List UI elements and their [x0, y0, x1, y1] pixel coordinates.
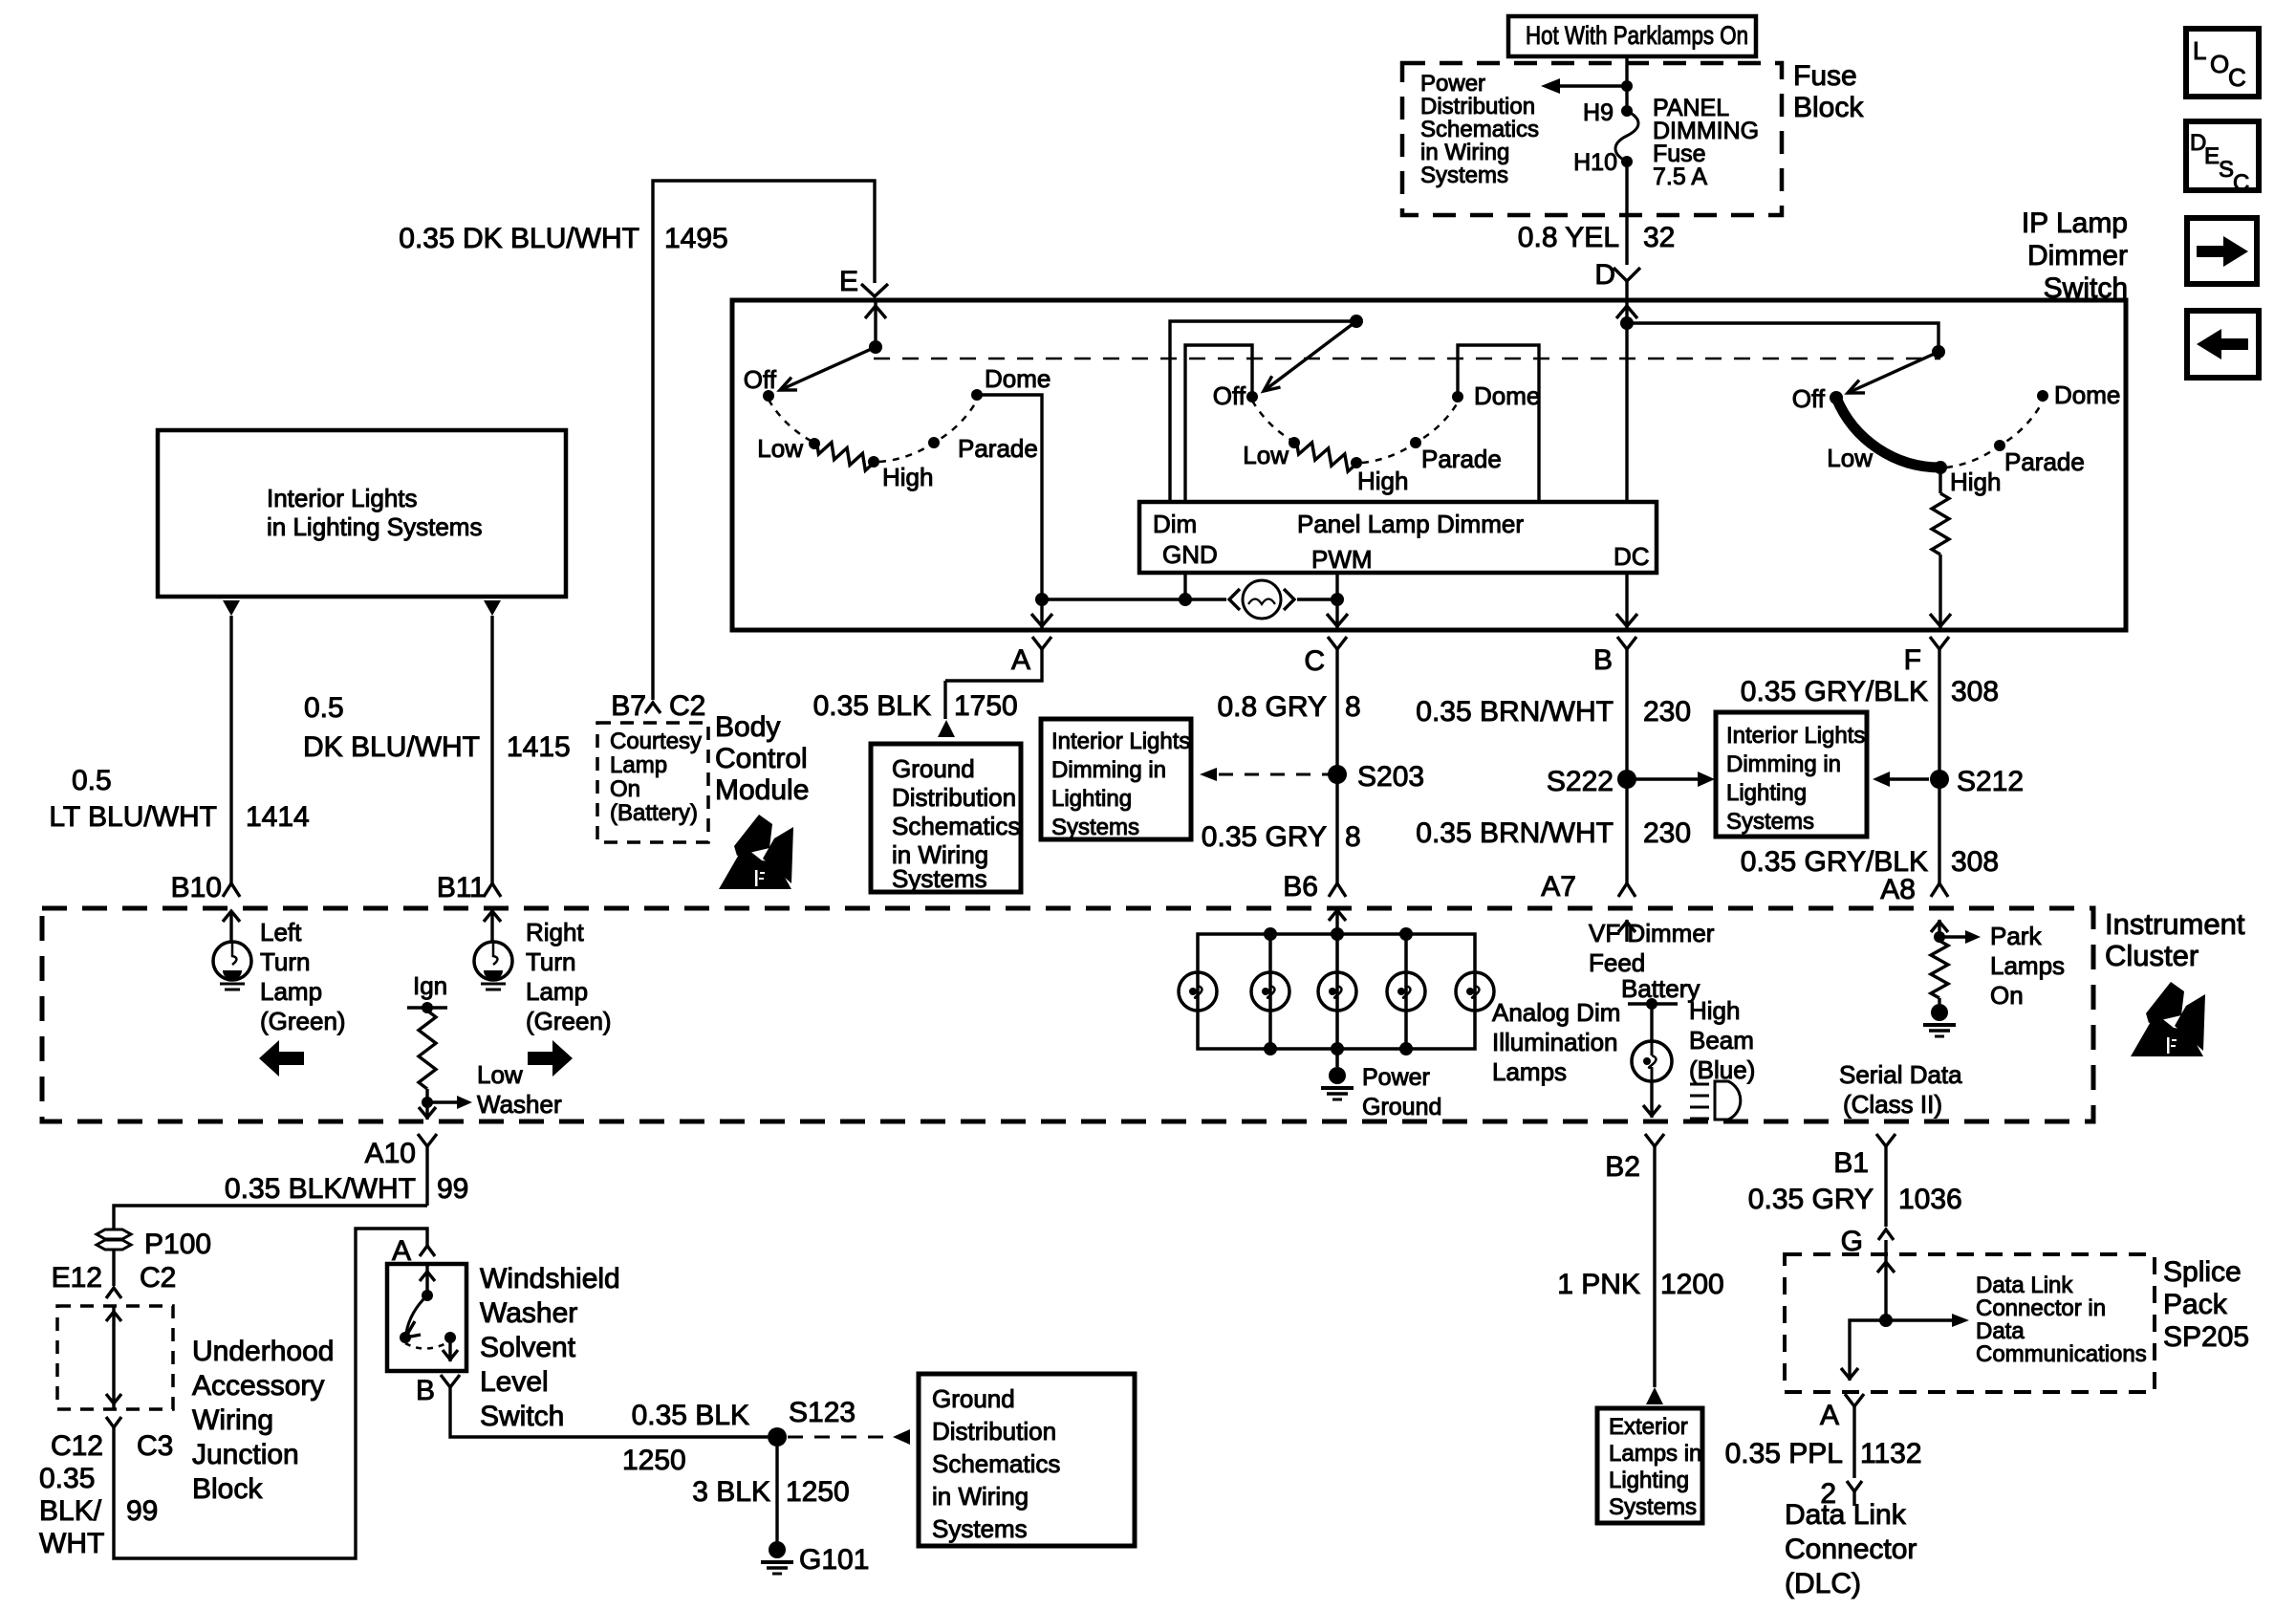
power distribution branch arrow	[1541, 78, 1633, 94]
courtesy lamp dashed box	[597, 723, 708, 842]
wire label 0.35 BLK 1750	[813, 690, 1018, 722]
underhood junction text	[192, 1336, 334, 1505]
arrow S212 to dimming box	[1873, 772, 1929, 787]
svg-text:H9: H9	[1583, 99, 1614, 126]
switch 3 Off contact	[1792, 384, 1843, 413]
svg-text:Dome: Dome	[985, 364, 1051, 393]
connector pin E	[839, 266, 888, 297]
ground distribution schematics box lower	[919, 1374, 1135, 1546]
fuse value label	[1653, 95, 1759, 190]
svg-text:Ground: Ground	[932, 1384, 1015, 1413]
svg-text:D: D	[1594, 259, 1615, 291]
svg-text:0.35 BLK/WHT: 0.35 BLK/WHT	[225, 1173, 416, 1205]
park lamps ground	[1923, 1004, 1956, 1036]
svg-text:Serial Data: Serial Data	[1839, 1060, 1962, 1089]
svg-text:Systems: Systems	[932, 1514, 1028, 1543]
connector B1	[1833, 1134, 1895, 1227]
ESD symbol instrument cluster	[2131, 982, 2205, 1056]
svg-text:Dimmer: Dimmer	[2027, 240, 2128, 272]
connector B10	[171, 872, 240, 903]
high beam icon	[1690, 1081, 1741, 1120]
illumination lamp 1	[1179, 972, 1217, 1011]
svg-text:230: 230	[1643, 817, 1691, 849]
wire F to A8	[1938, 681, 1940, 883]
svg-text:B2: B2	[1605, 1151, 1640, 1183]
svg-text:LT BLU/WHT: LT BLU/WHT	[49, 801, 217, 833]
svg-text:in Wiring: in Wiring	[932, 1482, 1029, 1511]
wire label 1 PNK 1200	[1557, 1269, 1723, 1300]
svg-text:308: 308	[1951, 676, 1999, 707]
VF dimmer feed arrow	[1618, 920, 1635, 942]
wire 1415 to B11	[490, 616, 493, 883]
Hot With Parklamps On banner	[1508, 16, 1756, 56]
svg-text:Interior Lights: Interior Lights	[267, 484, 418, 512]
svg-text:230: 230	[1643, 696, 1691, 728]
dashed arrow S203 to dimming box	[1200, 768, 1331, 781]
svg-text:Data Link: Data Link	[1976, 1273, 2073, 1298]
switch 1 Dome wire to node A	[977, 395, 1042, 599]
interior lights box text	[267, 484, 482, 541]
svg-text:On: On	[610, 776, 640, 802]
svg-text:1200: 1200	[1660, 1269, 1724, 1300]
wire label 0.35 DK BLU/WHT 1495	[399, 223, 727, 254]
left turn lamp text	[260, 918, 346, 1035]
svg-text:IP Lamp: IP Lamp	[2022, 207, 2128, 239]
splice pack title	[2163, 1256, 2249, 1353]
switch 3 Dome contact	[2037, 381, 2120, 409]
svg-text:Lamp: Lamp	[260, 977, 322, 1006]
svg-text:Park: Park	[1990, 922, 2042, 950]
svg-text:Hot With Parklamps On: Hot With Parklamps On	[1526, 21, 1748, 50]
svg-text:L: L	[2193, 36, 2206, 65]
wire label 3 BLK 1250	[692, 1476, 849, 1508]
svg-text:Exterior: Exterior	[1609, 1414, 1688, 1440]
instrument cluster dashed box	[42, 908, 2093, 1121]
switch 2 dashed arc High-Dome	[1362, 402, 1458, 463]
svg-text:Parade: Parade	[2004, 447, 2085, 476]
svg-text:Analog Dim: Analog Dim	[1492, 998, 1620, 1027]
svg-text:E: E	[2204, 143, 2220, 169]
splice P100	[97, 1229, 211, 1260]
interior lights dimming text left	[1051, 729, 1190, 840]
courtesy lamp text	[610, 729, 702, 826]
svg-text:Schematics: Schematics	[892, 812, 1020, 840]
svg-text:C: C	[1304, 645, 1325, 677]
svg-text:(DLC): (DLC)	[1785, 1568, 1861, 1599]
dashed link S123 to ground schematics	[788, 1429, 910, 1445]
svg-text:Block: Block	[1793, 92, 1864, 123]
svg-text:Connector: Connector	[1785, 1534, 1917, 1565]
splice S222	[1547, 766, 1636, 797]
svg-text:Left: Left	[260, 918, 302, 946]
illumination lamp 5	[1456, 972, 1494, 1011]
svg-text:BLK/: BLK/	[39, 1495, 102, 1527]
connector pin B	[1593, 637, 1636, 681]
interior lights in lighting systems box	[158, 430, 566, 597]
svg-text:Interior Lights: Interior Lights	[1051, 729, 1190, 754]
wire 1495 riser B7 to E	[653, 181, 875, 700]
ground G101	[761, 1541, 869, 1576]
LOC legend box	[2186, 29, 2259, 97]
svg-text:Courtesy: Courtesy	[610, 729, 702, 754]
wire label 0.35 GRY 1036	[1748, 1184, 1962, 1215]
svg-text:A: A	[1820, 1400, 1839, 1431]
arrow S222 to dimming box right	[1627, 772, 1715, 787]
exterior lamps text	[1609, 1414, 1701, 1520]
serial data text	[1839, 1060, 1962, 1119]
previous-page arrow legend box	[2187, 311, 2259, 378]
right turn arrow icon	[528, 1040, 573, 1077]
VF dimmer feed text	[1589, 919, 1715, 977]
svg-text:Lamps: Lamps	[1492, 1057, 1567, 1086]
svg-text:Cluster: Cluster	[2105, 939, 2199, 972]
lamp bank top bus dots	[1264, 927, 1413, 941]
connector B6	[1283, 871, 1346, 903]
svg-text:Switch: Switch	[2044, 272, 2128, 304]
svg-text:in Wiring: in Wiring	[1420, 140, 1509, 165]
lamp bank drops	[1270, 934, 1406, 1049]
svg-text:A7: A7	[1541, 871, 1576, 903]
svg-text:On: On	[1990, 981, 2024, 1010]
low washer branch	[422, 1060, 562, 1119]
wire PWM exit to C	[1327, 573, 1348, 628]
wire C12 return loop to washer switch	[114, 1229, 427, 1558]
svg-text:1 PNK: 1 PNK	[1557, 1269, 1640, 1300]
svg-text:Distribution: Distribution	[932, 1417, 1056, 1446]
exterior lamps box	[1597, 1408, 1702, 1523]
wire label 0.35 GRY/BLK 308 upper	[1741, 676, 1999, 707]
switch 3 resistor to F	[1930, 468, 1951, 628]
switch 1 wiper arm	[780, 347, 876, 390]
svg-text:Solvent: Solvent	[480, 1332, 576, 1363]
switch 2 Dome contact	[1452, 381, 1540, 410]
wire P100 to E12	[112, 1250, 115, 1286]
svg-text:Underhood: Underhood	[192, 1336, 334, 1367]
svg-text:1250: 1250	[622, 1445, 686, 1476]
panel lamp dimmer labels	[1153, 510, 1650, 574]
svg-text:Lamps in: Lamps in	[1609, 1441, 1701, 1467]
wire label 0.8 YEL 32	[1518, 222, 1676, 253]
svg-text:Power: Power	[1362, 1064, 1430, 1091]
svg-text:Ground: Ground	[1362, 1094, 1441, 1120]
wire label 0.5 LT BLU/WHT 1414	[49, 765, 309, 833]
lamp bank bottom bus dots	[1264, 1042, 1413, 1055]
svg-text:Lamp: Lamp	[526, 977, 588, 1006]
svg-text:S212: S212	[1957, 766, 2024, 797]
svg-text:Beam: Beam	[1689, 1026, 1754, 1055]
svg-text:SP205: SP205	[2163, 1321, 2249, 1353]
wire label 0.35 BLK 1250	[622, 1400, 749, 1476]
wire 1414 to B10	[229, 616, 232, 883]
svg-text:8: 8	[1345, 821, 1361, 853]
svg-text:Dimming in: Dimming in	[1051, 757, 1166, 783]
connector pin A	[1011, 637, 1051, 679]
wire label 0.35 BLK/WHT 99	[225, 1173, 468, 1205]
svg-text:C12: C12	[51, 1430, 103, 1462]
svg-text:Right: Right	[526, 918, 584, 946]
switch 3 High contact	[1934, 461, 2001, 496]
svg-text:Parade: Parade	[958, 434, 1038, 463]
arrow into ground distribution box	[938, 720, 955, 737]
svg-text:0.35 DK BLU/WHT: 0.35 DK BLU/WHT	[399, 223, 639, 254]
lamp bank B6 feed	[1329, 908, 1346, 934]
IP lamp dimmer switch box	[732, 300, 2126, 630]
wire A to ground distribution	[945, 679, 1042, 719]
wire A10 to P100	[114, 1206, 427, 1229]
svg-text:Schematics: Schematics	[932, 1449, 1060, 1478]
splice S203	[1328, 761, 1424, 793]
noise suppressor symbol	[1229, 580, 1294, 619]
switch 2 Dome wire to DC side	[1458, 345, 1539, 502]
IP lamp dimmer switch title	[2022, 207, 2128, 304]
wire from hot banner into fuse block	[1625, 56, 1628, 108]
svg-text:(Green): (Green)	[260, 1007, 346, 1035]
svg-text:S203: S203	[1357, 761, 1424, 793]
svg-text:308: 308	[1951, 846, 1999, 878]
connector B11	[437, 872, 501, 903]
svg-text:Lamps: Lamps	[1990, 951, 2065, 980]
connector A7	[1541, 871, 1635, 903]
arrow out of interior lights right	[484, 600, 501, 616]
svg-text:8: 8	[1345, 691, 1361, 723]
svg-text:High: High	[882, 463, 933, 491]
svg-text:0.8 GRY: 0.8 GRY	[1217, 691, 1327, 723]
svg-text:Windshield: Windshield	[480, 1263, 620, 1295]
svg-text:C2: C2	[669, 690, 705, 722]
DESC legend box	[2186, 121, 2259, 196]
svg-text:Dimming in: Dimming in	[1726, 751, 1841, 777]
svg-text:B1: B1	[1833, 1147, 1869, 1179]
splice pack internal wires	[1841, 1254, 1969, 1381]
switch 1 High contact	[868, 456, 933, 491]
wire through junction block	[106, 1306, 121, 1409]
svg-text:Low: Low	[1243, 441, 1289, 469]
svg-text:1132: 1132	[1860, 1438, 1922, 1469]
svg-text:0.5: 0.5	[72, 765, 112, 796]
panel lamp dimmer box	[1139, 502, 1657, 573]
svg-text:Instrument: Instrument	[2105, 907, 2245, 941]
wire label 0.35 PPL 1132	[1725, 1438, 1922, 1469]
svg-text:0.5: 0.5	[304, 692, 344, 724]
svg-text:Dome: Dome	[2054, 381, 2120, 409]
connector B7 C2	[611, 690, 705, 722]
switch 3 dashed arc High-Dome	[1946, 402, 2043, 468]
wire ign to A10	[419, 1102, 436, 1120]
underhood junction dashed box	[57, 1306, 173, 1409]
svg-text:Washer: Washer	[477, 1090, 562, 1119]
fuse block dashed box	[1402, 63, 1782, 215]
svg-text:A8: A8	[1880, 874, 1916, 905]
svg-text:A10: A10	[365, 1138, 416, 1169]
fuse block title	[1793, 60, 1864, 123]
wire B to A7	[1625, 681, 1628, 883]
ground distribution text upper	[892, 754, 1020, 893]
svg-text:Switch: Switch	[480, 1401, 564, 1432]
svg-text:PWM: PWM	[1311, 545, 1373, 574]
svg-text:C3: C3	[137, 1430, 173, 1462]
washer switch contacts	[400, 1264, 458, 1361]
power ground symbol	[1321, 1049, 1354, 1099]
left turn lamp	[213, 911, 251, 990]
svg-text:B7: B7	[611, 690, 646, 722]
svg-text:C: C	[2228, 63, 2246, 92]
svg-text:Control: Control	[715, 743, 808, 774]
switch 2 Off wire	[1185, 345, 1252, 502]
data link connector title	[1785, 1499, 1917, 1599]
svg-text:P100: P100	[144, 1229, 211, 1260]
wire A exit	[1031, 599, 1052, 628]
svg-text:Level: Level	[480, 1366, 549, 1398]
svg-text:VF Dimmer: VF Dimmer	[1589, 919, 1715, 947]
switch 3 wiper arm	[1848, 352, 1939, 393]
park lamps resistor	[1931, 920, 1981, 1004]
wire label 0.35 GRY 8	[1202, 821, 1361, 853]
power ground text	[1362, 1064, 1441, 1120]
svg-text:DC: DC	[1614, 542, 1650, 571]
svg-text:Parade: Parade	[1421, 445, 1502, 473]
svg-text:Feed: Feed	[1589, 948, 1645, 977]
splice S123	[768, 1397, 856, 1447]
battery feed high beam lamp	[1621, 974, 1700, 1118]
svg-text:Systems: Systems	[1420, 163, 1508, 188]
data link connector note text	[1976, 1273, 2147, 1367]
connector C12 C3	[51, 1417, 173, 1462]
connector splice pack pin A	[1820, 1394, 1864, 1478]
svg-text:WHT: WHT	[39, 1528, 104, 1559]
switch 3 heavy arc Off-High	[1836, 398, 1940, 468]
svg-text:High: High	[1950, 468, 2001, 496]
windshield washer switch box	[387, 1264, 466, 1371]
svg-text:0.35 BRN/WHT: 0.35 BRN/WHT	[1416, 696, 1614, 728]
instrument cluster title	[2105, 907, 2245, 972]
svg-text:Systems: Systems	[1726, 809, 1814, 835]
svg-text:B6: B6	[1283, 871, 1318, 903]
svg-text:High: High	[1689, 996, 1740, 1025]
illumination lamp 2	[1251, 972, 1289, 1011]
wire 1250 to S123	[450, 1396, 768, 1437]
connector pin C	[1304, 637, 1347, 681]
svg-text:S222: S222	[1547, 766, 1614, 797]
svg-text:High: High	[1357, 467, 1408, 495]
svg-text:S: S	[2219, 157, 2234, 183]
svg-text:Panel Lamp Dimmer: Panel Lamp Dimmer	[1297, 510, 1524, 538]
connector G	[1841, 1226, 1894, 1257]
interior lights dimming box right	[1716, 712, 1867, 837]
connector DLC pin 2	[1820, 1478, 1862, 1510]
body control module title	[715, 711, 809, 806]
switch 2 wiper arm	[1264, 321, 1356, 391]
switch 1 dashed arc High-Dome	[879, 401, 977, 462]
svg-text:Turn: Turn	[260, 947, 311, 976]
switch 3 Parade contact	[1994, 440, 2085, 476]
svg-text:E12: E12	[52, 1262, 102, 1294]
ground distribution schematics box upper	[871, 744, 1021, 892]
switch 1 resistor Low-High	[817, 443, 872, 470]
svg-text:Power: Power	[1420, 71, 1485, 97]
svg-text:Off: Off	[1213, 381, 1246, 410]
svg-text:(Class II): (Class II)	[1843, 1090, 1942, 1119]
svg-text:0.35 BRN/WHT: 0.35 BRN/WHT	[1416, 817, 1614, 849]
connector washer switch pin A	[392, 1235, 435, 1267]
svg-text:S123: S123	[789, 1397, 856, 1428]
svg-text:0.35 PPL: 0.35 PPL	[1725, 1438, 1843, 1469]
svg-text:99: 99	[437, 1173, 468, 1205]
svg-text:Off: Off	[744, 365, 777, 394]
svg-text:Block: Block	[192, 1473, 263, 1505]
wire label 0.35 BRN/WHT 230 lower	[1416, 817, 1691, 849]
svg-text:Lighting: Lighting	[1726, 780, 1807, 806]
svg-text:Communications: Communications	[1976, 1341, 2147, 1367]
analog dim lamp bank buses	[1198, 934, 1475, 1049]
wire label 0.35 BLK/WHT 99 second	[39, 1463, 158, 1559]
interior lights dimming text right	[1726, 723, 1865, 835]
ignition feed resistor	[407, 971, 447, 1102]
splice pack dashed box	[1785, 1254, 2155, 1392]
svg-text:Low: Low	[477, 1060, 523, 1089]
svg-text:Dim: Dim	[1153, 510, 1197, 538]
svg-text:A: A	[1011, 644, 1030, 676]
svg-text:Distribution: Distribution	[1420, 94, 1535, 120]
GND pin wire	[1183, 573, 1186, 599]
svg-text:O: O	[2210, 50, 2229, 78]
fuse F1 PANEL DIMMING 7.5A	[1615, 105, 1638, 167]
svg-text:Low: Low	[1827, 444, 1873, 472]
svg-text:32: 32	[1643, 222, 1675, 253]
wire DC exit to B	[1616, 573, 1637, 628]
svg-text:Splice: Splice	[2163, 1256, 2242, 1288]
svg-text:0.35 GRY: 0.35 GRY	[1748, 1184, 1874, 1215]
splice S212	[1930, 766, 2024, 797]
arrow into exterior lamps box	[1646, 1387, 1663, 1404]
svg-text:1415: 1415	[507, 731, 571, 763]
pin H9 label	[1583, 99, 1614, 126]
pin H10 label	[1573, 149, 1617, 176]
analog dim illumination lamps text	[1492, 998, 1620, 1086]
svg-text:99: 99	[126, 1495, 158, 1527]
svg-text:0.35 GRY: 0.35 GRY	[1202, 821, 1327, 853]
svg-text:(Battery): (Battery)	[610, 800, 698, 826]
switch 2 dashed arc Off-Low	[1252, 401, 1292, 441]
switch 1 common wire from E	[865, 302, 886, 354]
switch 1 Low contact	[757, 434, 820, 463]
switch 2 resistor Low-High	[1297, 443, 1354, 471]
svg-text:Accessory: Accessory	[192, 1370, 324, 1402]
svg-text:7.5 A: 7.5 A	[1653, 163, 1707, 190]
svg-text:1750: 1750	[954, 690, 1018, 722]
wire label 0.35 BRN/WHT 230 upper	[1416, 696, 1691, 728]
connector pin F	[1904, 637, 1949, 681]
svg-text:Lamp: Lamp	[610, 752, 667, 778]
svg-text:Lighting: Lighting	[1051, 786, 1132, 812]
high beam text	[1689, 996, 1755, 1084]
next-page arrow legend box	[2187, 218, 2257, 284]
connector pin D	[1594, 259, 1640, 298]
left turn arrow icon	[259, 1040, 304, 1077]
svg-text:Fuse: Fuse	[1793, 60, 1857, 92]
svg-text:Lighting: Lighting	[1609, 1468, 1689, 1493]
svg-text:Pack: Pack	[2163, 1289, 2228, 1320]
svg-text:1250: 1250	[786, 1476, 850, 1508]
switch 2 Parade contact	[1410, 437, 1502, 473]
svg-text:F: F	[1904, 644, 1921, 676]
connector A10	[365, 1134, 437, 1206]
svg-text:0.8 YEL: 0.8 YEL	[1518, 222, 1619, 253]
right turn lamp	[474, 911, 512, 990]
connector E12 C2	[52, 1262, 177, 1298]
arrow out of interior lights left	[223, 600, 240, 616]
wire D branch to switch 3	[1627, 323, 1945, 359]
svg-text:DK BLU/WHT: DK BLU/WHT	[303, 731, 480, 763]
